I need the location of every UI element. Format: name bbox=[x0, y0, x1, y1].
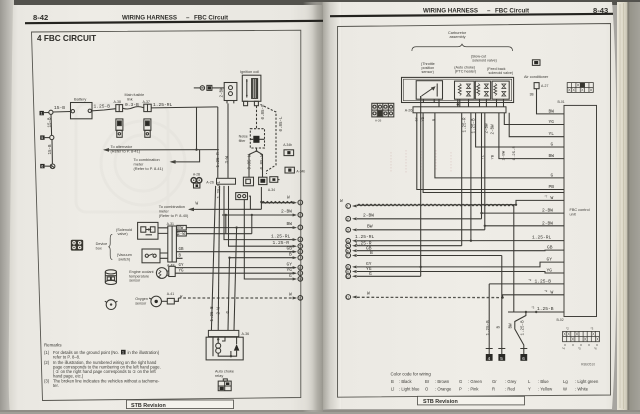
svg-text:Air conditioner: Air conditioner bbox=[524, 75, 549, 79]
node 4 bbox=[271, 233, 303, 242]
ground point 6 terminal bbox=[50, 164, 55, 169]
fusible link stack under A-37 bbox=[144, 119, 151, 137]
svg-text:G: G bbox=[369, 271, 372, 277]
svg-text:6: 6 bbox=[41, 165, 43, 169]
FBC control unit bbox=[564, 105, 597, 316]
svg-text:: Yellow: : Yellow bbox=[538, 387, 553, 392]
svg-text:11: 11 bbox=[298, 297, 302, 301]
svg-text:1.25-B: 1.25-B bbox=[487, 320, 491, 336]
connector A-34b lower bbox=[285, 167, 305, 173]
svg-text:ter.: ter. bbox=[53, 383, 59, 388]
svg-text:P: P bbox=[459, 387, 462, 392]
svg-text:: Green: : Green bbox=[468, 379, 483, 384]
wire dashed 0.85-L from coil bbox=[256, 106, 258, 129]
svg-text:11: 11 bbox=[346, 296, 350, 300]
svg-text:–: – bbox=[487, 8, 491, 15]
svg-text:2-W: 2-W bbox=[217, 306, 221, 314]
canister component bbox=[105, 270, 116, 285]
node 9 right page bbox=[346, 266, 564, 274]
svg-text:W: W bbox=[551, 195, 554, 201]
svg-text:unit: unit bbox=[570, 213, 577, 217]
connector A-37 bbox=[143, 100, 152, 112]
solenoid valve bbox=[138, 222, 158, 239]
svg-text:FBC Circuit: FBC Circuit bbox=[194, 15, 228, 22]
svg-text:A-34b: A-34b bbox=[296, 169, 305, 173]
svg-text:YG: YG bbox=[549, 119, 555, 125]
wire 2-BW row1 to unit bbox=[481, 113, 483, 219]
svg-text:A-26: A-26 bbox=[405, 109, 413, 113]
connector grid B-01 bbox=[567, 83, 593, 93]
wire bus bend down at right bbox=[217, 107, 219, 178]
node 5 right page bbox=[346, 240, 462, 248]
wire GY from A-48 bbox=[175, 267, 295, 269]
right diagram frame bbox=[338, 24, 611, 398]
svg-text:switch): switch) bbox=[118, 257, 131, 261]
wire label box 2-W bbox=[177, 231, 186, 237]
wire battery to A-38, 1.25-B bbox=[92, 109, 116, 111]
svg-text:–: – bbox=[186, 15, 190, 22]
svg-text:1: 1 bbox=[347, 205, 349, 209]
wire YG to unit bbox=[504, 113, 564, 125]
svg-text:link: link bbox=[127, 97, 133, 101]
svg-text:YG: YG bbox=[179, 270, 185, 274]
svg-text:4 FBC CIRCUIT: 4 FBC CIRCUIT bbox=[37, 34, 96, 43]
svg-text:A-26: A-26 bbox=[375, 119, 382, 123]
wire YL to unit bbox=[509, 113, 564, 137]
right footer STB Revision bbox=[418, 396, 525, 405]
wire to combination meter upper bbox=[134, 150, 200, 172]
svg-text:5: 5 bbox=[500, 356, 503, 361]
wire to combination meter lower bbox=[159, 201, 262, 218]
wire 1.25-B down to A-36 bbox=[211, 186, 215, 331]
svg-text:A-2B: A-2B bbox=[193, 172, 200, 176]
wire G to unit bbox=[476, 113, 564, 147]
svg-text:1.25-B: 1.25-B bbox=[537, 306, 554, 312]
wire B row 7 bbox=[230, 257, 296, 259]
svg-text:The broken line indicates the: The broken line indicates the vehicles w… bbox=[53, 378, 160, 383]
svg-text:3: 3 bbox=[299, 226, 301, 230]
wire 1.25-R vertical bbox=[461, 113, 463, 246]
wire ground to distributor bbox=[212, 87, 224, 89]
svg-text:*3: *3 bbox=[532, 306, 535, 310]
svg-text:A-41: A-41 bbox=[167, 292, 174, 296]
color code for wiring table bbox=[391, 363, 599, 392]
svg-text:: Grey: : Grey bbox=[505, 379, 517, 384]
svg-text:2-BW: 2-BW bbox=[542, 208, 553, 214]
svg-text:(1): (1) bbox=[44, 350, 50, 355]
ground point near battery bbox=[40, 110, 54, 115]
svg-text:GB: GB bbox=[547, 245, 553, 251]
connector A-26 bar right page bbox=[405, 107, 506, 113]
wire G row 10 from contact box bbox=[244, 196, 295, 279]
ground wire C with slant bbox=[515, 312, 526, 349]
node 3 bbox=[287, 221, 303, 230]
wire 1.25-RL bus to right bbox=[151, 107, 218, 108]
svg-text:sensor): sensor) bbox=[422, 70, 434, 74]
svg-text:2-BW: 2-BW bbox=[486, 123, 490, 134]
wire G from carburetor bbox=[435, 113, 564, 178]
svg-text:GY: GY bbox=[179, 264, 185, 268]
svg-text:6: 6 bbox=[522, 356, 525, 361]
svg-text:3B: 3B bbox=[530, 94, 534, 98]
svg-text:W: W bbox=[287, 195, 290, 200]
node 10 right page bbox=[346, 271, 421, 279]
svg-text:YB: YB bbox=[492, 154, 496, 159]
svg-text:Battery: Battery bbox=[74, 96, 86, 101]
battery bbox=[71, 96, 93, 118]
svg-text:assembly: assembly bbox=[450, 35, 466, 39]
svg-text:relay: relay bbox=[215, 374, 223, 378]
svg-text:R: R bbox=[492, 387, 495, 392]
svg-text:1.25-B: 1.25-B bbox=[535, 278, 552, 284]
connector A-31 bbox=[167, 222, 177, 262]
solenoid valve 2 bbox=[475, 81, 490, 99]
svg-text:YL: YL bbox=[482, 154, 486, 159]
svg-text:9: 9 bbox=[299, 272, 301, 276]
ignition coil bbox=[240, 70, 261, 106]
svg-text:WIRING HARNESS: WIRING HARNESS bbox=[423, 8, 478, 15]
svg-text:B: B bbox=[289, 252, 292, 258]
svg-text:1: 1 bbox=[122, 351, 124, 355]
node junction dots on row 2 bbox=[225, 214, 227, 216]
node 5 bbox=[273, 240, 303, 249]
wire 2-W down to A-36 bbox=[218, 186, 219, 331]
svg-text:Ignition coil: Ignition coil bbox=[240, 70, 259, 74]
svg-text:A-34b: A-34b bbox=[283, 143, 292, 147]
relay contact box top bbox=[236, 193, 248, 200]
svg-text:Gr: Gr bbox=[492, 379, 497, 384]
carburetor assembly box bbox=[402, 77, 514, 102]
svg-text:B: B bbox=[391, 379, 394, 384]
svg-text:1: 1 bbox=[299, 201, 301, 205]
noise filter bbox=[239, 129, 265, 148]
distributor ground: wire bbox=[194, 87, 200, 89]
remarks block bbox=[44, 343, 161, 388]
node 11 dashed bbox=[178, 292, 302, 301]
node dot row3 bbox=[235, 226, 237, 228]
svg-text:2: 2 bbox=[347, 217, 349, 221]
wire pins solenoids to A-26 bar bbox=[439, 99, 504, 107]
svg-text:(PTC heater): (PTC heater) bbox=[455, 70, 476, 74]
svg-text:Br: Br bbox=[425, 379, 430, 384]
svg-text:4: 4 bbox=[347, 239, 349, 243]
svg-text:2-BW: 2-BW bbox=[503, 150, 507, 160]
svg-text:(Refer to P. 8-41): (Refer to P. 8-41) bbox=[134, 166, 164, 171]
svg-text:(3): (3) bbox=[44, 378, 50, 383]
svg-text:: Orange: : Orange bbox=[435, 387, 452, 392]
wire label box BW bbox=[176, 225, 186, 231]
svg-text:W: W bbox=[196, 201, 199, 206]
svg-text:BW: BW bbox=[367, 224, 373, 230]
wire down from ground circle bbox=[51, 114, 52, 163]
svg-text:G: G bbox=[459, 379, 462, 384]
svg-text:GY: GY bbox=[287, 261, 293, 267]
node 6 bbox=[287, 246, 303, 255]
distributor bbox=[224, 83, 237, 104]
node 10 bbox=[289, 273, 303, 282]
svg-text:PB: PB bbox=[549, 184, 555, 190]
svg-text:B: B bbox=[370, 250, 373, 256]
auto choke relay connector pictorial bbox=[218, 379, 231, 391]
ground wire A bbox=[488, 284, 490, 349]
svg-text:0.85-W: 0.85-W bbox=[261, 154, 265, 170]
wire vertical row3 to A-36 bbox=[234, 228, 237, 331]
svg-text:1: 1 bbox=[41, 112, 43, 116]
wire distributor down bbox=[227, 103, 229, 177]
right page header bbox=[330, 6, 613, 16]
svg-text:0.85-W: 0.85-W bbox=[249, 154, 253, 170]
svg-text:1.25-R: 1.25-R bbox=[273, 240, 290, 246]
wire battery negative to ground bbox=[53, 111, 71, 114]
engine coolant temperature sensor bbox=[156, 268, 167, 279]
connector A-48 bbox=[167, 263, 175, 276]
wire Gr from carburetor bbox=[417, 113, 564, 190]
svg-text:W: W bbox=[340, 199, 343, 204]
left page header bbox=[25, 13, 323, 23]
svg-text:*7: *7 bbox=[545, 195, 548, 199]
svg-text:7: 7 bbox=[299, 256, 301, 260]
wire 1.25-B to unit row bbox=[489, 278, 564, 284]
svg-text:5: 5 bbox=[41, 136, 43, 140]
wire node 2 row bbox=[222, 214, 296, 216]
carburetor assembly brace bbox=[412, 44, 513, 51]
svg-text:15-B: 15-B bbox=[48, 117, 52, 128]
connector A-38 bbox=[114, 100, 123, 111]
svg-text:W: W bbox=[367, 291, 370, 297]
svg-text:solenoid valve): solenoid valve) bbox=[489, 71, 514, 75]
svg-text:2-BW: 2-BW bbox=[491, 124, 495, 135]
svg-text:Carburetor: Carburetor bbox=[448, 31, 467, 35]
connector A-41 bbox=[162, 292, 175, 304]
svg-text:GB: GB bbox=[179, 248, 185, 252]
wire shielded zigzag node 1 bbox=[260, 187, 295, 203]
wire 2-W horizontal from A-31 bbox=[186, 233, 252, 235]
connector A-34b upper bbox=[283, 143, 293, 156]
node 8 bbox=[287, 261, 303, 270]
grommet grid connector left bbox=[372, 103, 394, 122]
svg-text:1.25-R: 1.25-R bbox=[217, 152, 221, 168]
grommet A-2B cluster bbox=[191, 172, 202, 188]
ground point C bbox=[520, 349, 527, 361]
left footer STB Revision bbox=[127, 400, 234, 409]
connector grid B-02 bottom bbox=[562, 327, 599, 351]
svg-text:*2: *2 bbox=[545, 289, 548, 293]
svg-text:: Light green: : Light green bbox=[575, 379, 599, 384]
svg-text:15-B: 15-B bbox=[54, 105, 65, 111]
device box label and bracket bbox=[96, 234, 113, 259]
svg-text:A-26: A-26 bbox=[206, 180, 214, 184]
svg-text:0.85-L: 0.85-L bbox=[280, 116, 284, 132]
wire 1.25-B vertical right bbox=[513, 206, 515, 313]
wire 1.25-B vertical to node 4 row bbox=[470, 113, 472, 241]
ground point 5 ring bbox=[50, 135, 54, 139]
node 8 right page bbox=[346, 257, 564, 270]
svg-text:WIRING HARNESS: WIRING HARNESS bbox=[122, 15, 177, 22]
svg-text:1.25-B: 1.25-B bbox=[522, 320, 526, 336]
svg-text:BW: BW bbox=[549, 153, 555, 159]
wire to alternator bbox=[103, 144, 219, 154]
svg-text:YL: YL bbox=[549, 131, 555, 137]
svg-text:2-BW: 2-BW bbox=[221, 87, 225, 98]
connector A-27 bbox=[530, 83, 549, 98]
ground wire B bbox=[501, 256, 503, 349]
svg-text:: Black: : Black bbox=[399, 379, 412, 384]
svg-text:7: 7 bbox=[347, 254, 349, 258]
left page bbox=[9, 5, 322, 412]
ghost bleed-through bbox=[76, 104, 185, 212]
node 2 bbox=[281, 209, 303, 218]
right page bbox=[322, 2, 617, 409]
device box grommet cluster bbox=[71, 240, 83, 251]
svg-text:BW: BW bbox=[178, 227, 184, 231]
svg-text:STB Revision: STB Revision bbox=[423, 399, 458, 405]
svg-text:Remarks: Remarks bbox=[44, 343, 62, 348]
svg-text:: Blue: : Blue bbox=[538, 379, 549, 384]
svg-text:GY: GY bbox=[547, 257, 553, 263]
wire bend to node 4 row bbox=[224, 186, 296, 240]
node junction below carburetor bbox=[457, 103, 459, 105]
vacuum switch bbox=[142, 249, 160, 263]
svg-text:R8B0510: R8B0510 bbox=[581, 363, 595, 367]
svg-text:1.25-B: 1.25-B bbox=[211, 306, 215, 322]
svg-text:W: W bbox=[289, 292, 292, 298]
fore-edge page stack lines bbox=[620, 3, 624, 409]
svg-text:2-BW: 2-BW bbox=[542, 220, 553, 226]
svg-text:2-BW: 2-BW bbox=[363, 213, 374, 219]
svg-text:FBC Circuit: FBC Circuit bbox=[495, 8, 529, 15]
wire bend to node 5 row bbox=[229, 186, 296, 246]
wire BW row 3 bbox=[186, 227, 296, 229]
svg-text:(Refer to P. 8-41): (Refer to P. 8-41) bbox=[111, 149, 141, 154]
svg-text:FBC control: FBC control bbox=[570, 208, 590, 212]
wire 1.25-B bottom row bbox=[508, 306, 564, 314]
svg-text:YG: YG bbox=[547, 268, 553, 274]
ground ring terminal bbox=[200, 86, 204, 90]
ground point A bbox=[486, 349, 493, 361]
svg-text:sensor: sensor bbox=[129, 279, 141, 283]
svg-text:BW: BW bbox=[549, 108, 555, 114]
node 1 right page with shielded zigzag wire bbox=[340, 195, 564, 209]
svg-text:5: 5 bbox=[299, 245, 301, 249]
svg-text:1.25-RL: 1.25-RL bbox=[355, 234, 375, 240]
svg-text:*4: *4 bbox=[562, 347, 565, 351]
node 4 right page bbox=[346, 234, 564, 244]
svg-text:4: 4 bbox=[488, 356, 491, 361]
svg-text:filter: filter bbox=[239, 139, 247, 143]
svg-text:5: 5 bbox=[347, 244, 349, 248]
wire 0.85-L dashed bypass bbox=[261, 105, 277, 175]
svg-text:8-42: 8-42 bbox=[33, 13, 48, 22]
wire W dashed up to unit bbox=[501, 289, 564, 299]
svg-text:10: 10 bbox=[346, 275, 350, 279]
wire GB from A-31 bbox=[176, 251, 295, 253]
svg-text:*6: *6 bbox=[594, 347, 597, 351]
svg-text:8: 8 bbox=[299, 266, 301, 270]
connector A-36 bar bbox=[208, 330, 249, 336]
svg-text:A-27: A-27 bbox=[541, 84, 548, 88]
svg-text:3: 3 bbox=[347, 228, 349, 232]
svg-text:G: G bbox=[551, 172, 554, 178]
svg-text:valve): valve) bbox=[118, 232, 129, 236]
wires vacuum switch to A-31 bbox=[160, 253, 168, 258]
wire vertical from row2 to 2-W line bbox=[225, 215, 227, 234]
node 3 right page bbox=[346, 224, 485, 233]
wire vertical from row2 dot right bbox=[251, 215, 253, 234]
svg-text:Auto choke: Auto choke bbox=[215, 370, 234, 374]
node 11 right page dashed bbox=[346, 291, 503, 300]
svg-text:: Brown: : Brown bbox=[435, 379, 450, 384]
auto choke / PTC heater unit bbox=[455, 81, 475, 99]
svg-text:10: 10 bbox=[298, 278, 302, 282]
svg-text:2-BW: 2-BW bbox=[281, 209, 292, 215]
svg-text:4: 4 bbox=[299, 238, 301, 242]
wire 0.3-Br main fusible link bbox=[123, 107, 144, 109]
connector A-26 bar bbox=[206, 178, 235, 184]
svg-text:STB Revision: STB Revision bbox=[131, 403, 166, 409]
svg-text:(Refer to P. 8-40): (Refer to P. 8-40) bbox=[159, 213, 189, 218]
svg-text:sensor: sensor bbox=[135, 301, 147, 305]
svg-text:: Pink: : Pink bbox=[468, 387, 479, 392]
auto choke relay bbox=[206, 337, 243, 360]
svg-text:1.25-R: 1.25-R bbox=[463, 117, 467, 133]
svg-text:Gr: Gr bbox=[414, 117, 419, 122]
svg-text:1.25-RL: 1.25-RL bbox=[532, 234, 552, 240]
svg-text:W: W bbox=[563, 387, 567, 392]
wire YG from A-48 bbox=[175, 272, 295, 274]
svg-text:1.25-R: 1.25-R bbox=[513, 145, 517, 160]
svg-text:: Red: : Red bbox=[505, 387, 516, 392]
svg-text:in the illustration): in the illustration) bbox=[128, 350, 160, 355]
svg-text:BW: BW bbox=[510, 323, 514, 329]
wire BW from A-27 to unit bbox=[537, 89, 565, 114]
svg-text:15-B: 15-B bbox=[49, 144, 53, 155]
svg-text:Lg: Lg bbox=[563, 379, 568, 384]
feed back solenoid valve bbox=[492, 81, 509, 99]
svg-text:B-01: B-01 bbox=[558, 100, 565, 104]
svg-text:A-36: A-36 bbox=[242, 332, 250, 336]
node 9 bbox=[287, 267, 303, 276]
svg-text:*3: *3 bbox=[591, 327, 594, 331]
svg-text:(2): (2) bbox=[44, 360, 50, 365]
svg-text:Color code for wiring: Color code for wiring bbox=[391, 372, 432, 377]
node 7 bbox=[289, 252, 303, 261]
svg-text:A-34: A-34 bbox=[268, 188, 275, 192]
svg-text:1.25-RL: 1.25-RL bbox=[271, 233, 291, 239]
svg-text:2-W: 2-W bbox=[177, 233, 185, 237]
oxygen sensor bbox=[149, 296, 161, 307]
svg-text:refer to P. 8–8.: refer to P. 8–8. bbox=[53, 355, 80, 360]
connector A-34 pair bbox=[243, 177, 279, 192]
svg-text:W: W bbox=[551, 289, 554, 295]
svg-text:solenoid valve): solenoid valve) bbox=[472, 59, 497, 63]
book fore-edge right bbox=[617, 2, 640, 410]
wire from A-41 to node 11 bbox=[174, 298, 178, 301]
svg-text:6: 6 bbox=[299, 250, 301, 254]
wire BW mid to unit bbox=[499, 113, 564, 159]
node 1 bbox=[293, 200, 303, 205]
svg-text:Y: Y bbox=[528, 387, 531, 392]
svg-text:*5: *5 bbox=[578, 347, 581, 351]
svg-text:Ll: Ll bbox=[391, 387, 394, 392]
throttle position sensor bbox=[416, 81, 442, 103]
wire 2-BW row2 to unit bbox=[484, 113, 486, 230]
node 2 right page bbox=[346, 213, 482, 222]
wire 0.85-W pair from filter down bbox=[249, 148, 263, 177]
node 7 right page bbox=[346, 250, 502, 258]
fusible link stack under A-38 bbox=[116, 119, 123, 137]
wire B short stub bbox=[176, 257, 182, 260]
svg-text:: Light blue: : Light blue bbox=[399, 387, 420, 392]
